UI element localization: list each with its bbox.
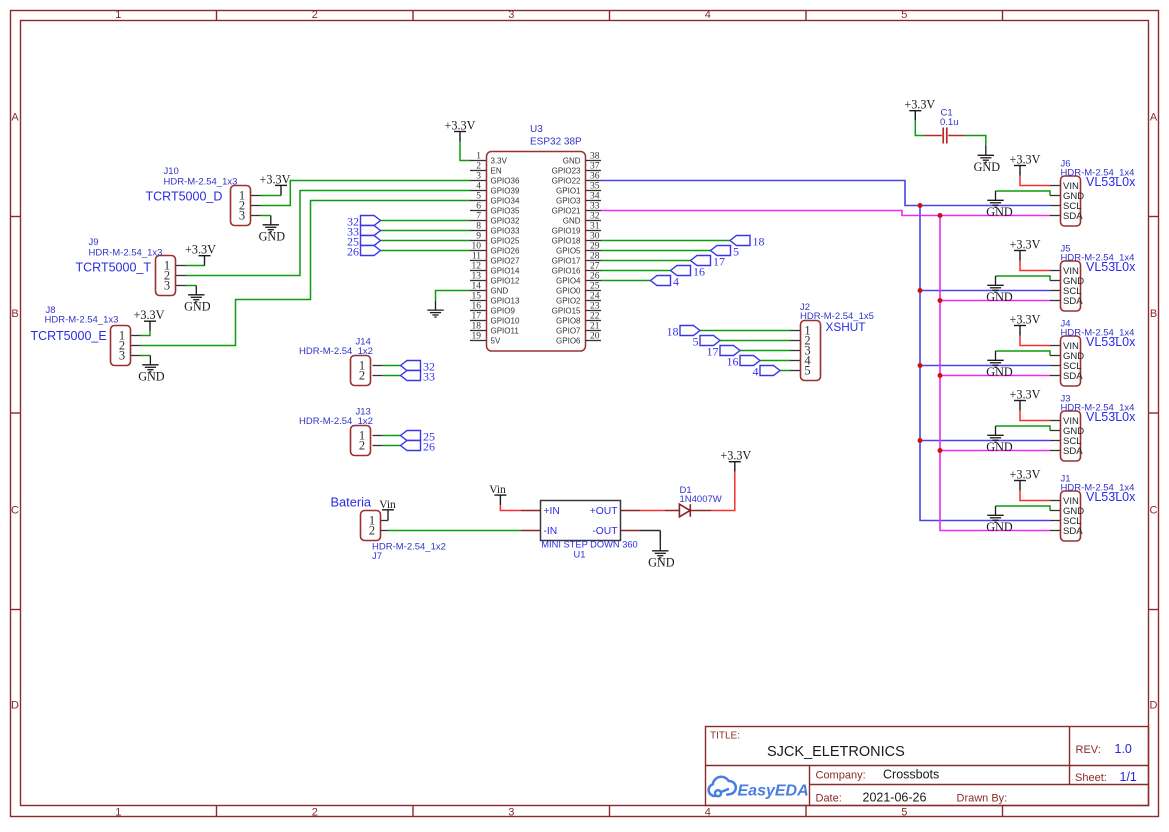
svg-text:16: 16 [727,355,739,369]
svg-text:GPIO17: GPIO17 [552,256,581,265]
svg-text:ESP32 38P: ESP32 38P [530,137,582,148]
svg-text:U3: U3 [530,124,543,135]
svg-text:GPIO12: GPIO12 [491,276,520,285]
svg-text:5: 5 [693,335,699,349]
svg-text:TCRT5000_D: TCRT5000_D [146,190,223,204]
svg-text:GPIO27: GPIO27 [491,256,520,265]
svg-text:3: 3 [508,9,514,21]
svg-text:+3.3V: +3.3V [1010,388,1041,402]
svg-text:7: 7 [476,212,481,222]
svg-text:33: 33 [423,370,435,384]
svg-text:GND: GND [986,290,1013,304]
svg-text:GPIO2: GPIO2 [556,296,581,305]
svg-text:GPIO39: GPIO39 [491,186,520,195]
svg-text:TITLE:: TITLE: [710,731,740,742]
svg-text:15: 15 [472,292,482,302]
svg-text:12: 12 [472,262,482,272]
svg-text:GND: GND [259,229,286,243]
svg-text:22: 22 [590,312,600,322]
svg-text:+3.3V: +3.3V [1010,468,1041,482]
svg-text:18: 18 [667,325,679,339]
svg-text:18: 18 [753,235,765,249]
svg-text:GPIO10: GPIO10 [491,316,520,325]
svg-text:GND: GND [491,286,509,295]
svg-text:3: 3 [164,279,170,293]
svg-text:19: 19 [472,332,482,342]
svg-text:GPIO19: GPIO19 [552,226,581,235]
svg-text:GPIO3: GPIO3 [556,196,581,205]
svg-text:Crossbots: Crossbots [883,768,939,782]
svg-text:GND: GND [184,299,211,313]
svg-text:SDA: SDA [1063,211,1083,222]
svg-text:Drawn By:: Drawn By: [957,793,1008,805]
svg-text:3.3V: 3.3V [491,156,508,165]
svg-text:13: 13 [472,272,482,282]
svg-text:1/1: 1/1 [1120,770,1137,784]
svg-text:37: 37 [590,162,600,172]
svg-text:TCRT5000_E: TCRT5000_E [31,329,107,343]
svg-text:Sheet:: Sheet: [1075,772,1107,784]
svg-text:GPIO36: GPIO36 [491,176,520,185]
svg-text:Bateria: Bateria [331,495,372,510]
svg-text:2: 2 [312,807,318,819]
svg-text:16: 16 [472,302,482,312]
svg-text:14: 14 [472,282,482,292]
svg-text:REV:: REV: [1076,744,1101,756]
svg-text:2: 2 [359,439,365,453]
svg-text:33: 33 [590,202,600,212]
svg-text:EN: EN [491,166,502,175]
svg-text:2: 2 [476,162,481,172]
svg-text:1.0: 1.0 [1115,742,1132,756]
svg-text:16: 16 [693,265,705,279]
svg-text:GPIO13: GPIO13 [491,296,520,305]
svg-text:+3.3V: +3.3V [1010,153,1041,167]
svg-text:30: 30 [590,232,600,242]
svg-text:HDR-M-2.54_1x2: HDR-M-2.54_1x2 [299,416,373,427]
svg-text:GPIO23: GPIO23 [552,166,581,175]
svg-text:38: 38 [590,152,600,162]
svg-text:GPIO16: GPIO16 [552,266,581,275]
svg-text:5: 5 [901,807,907,819]
svg-text:HDR-M-2.54_1x2: HDR-M-2.54_1x2 [299,346,373,357]
svg-text:2021-06-26: 2021-06-26 [863,791,927,805]
svg-text:SDA: SDA [1063,526,1083,537]
svg-text:GPIO32: GPIO32 [491,216,520,225]
svg-text:20: 20 [590,332,600,342]
svg-text:11: 11 [472,252,481,262]
svg-text:HDR-M-2.54_1x3: HDR-M-2.54_1x3 [89,247,163,258]
svg-text:GPIO26: GPIO26 [491,246,520,255]
svg-text:GPIO4: GPIO4 [556,276,581,285]
svg-text:GND: GND [986,520,1013,534]
svg-text:D: D [1150,700,1158,712]
svg-text:GPIO34: GPIO34 [491,196,520,205]
svg-text:26: 26 [347,245,359,259]
svg-text:GND: GND [986,205,1013,219]
svg-text:GPIO7: GPIO7 [556,326,581,335]
svg-text:Date:: Date: [816,793,842,805]
svg-text:HDR-M-2.54_1x3: HDR-M-2.54_1x3 [45,315,119,326]
svg-text:HDR-M-2.54_1x3: HDR-M-2.54_1x3 [164,177,238,188]
svg-text:+OUT: +OUT [590,506,618,517]
svg-text:VL53L0x: VL53L0x [1086,410,1136,424]
svg-text:GPIO8: GPIO8 [556,316,581,325]
svg-text:GPIO11: GPIO11 [491,326,520,335]
svg-text:23: 23 [590,302,600,312]
svg-text:-OUT: -OUT [592,526,618,537]
svg-text:36: 36 [590,172,600,182]
svg-text:3: 3 [119,349,125,363]
svg-text:5: 5 [476,192,481,202]
svg-text:SJCK_ELETRONICS: SJCK_ELETRONICS [767,744,905,760]
svg-text:GND: GND [974,160,1001,174]
svg-text:Vin: Vin [379,499,396,511]
svg-text:A: A [1150,111,1158,123]
svg-text:4: 4 [476,182,481,192]
svg-text:+3.3V: +3.3V [904,98,935,112]
svg-text:0.1u: 0.1u [940,117,959,128]
svg-text:GPIO22: GPIO22 [552,176,581,185]
svg-text:GPIO33: GPIO33 [491,226,520,235]
svg-text:17: 17 [472,312,482,322]
svg-text:21: 21 [590,322,600,332]
svg-text:GPIO35: GPIO35 [491,206,520,215]
svg-text:GPIO15: GPIO15 [552,306,581,315]
svg-text:+3.3V: +3.3V [1010,238,1041,252]
svg-text:MINI STEP DOWN 360: MINI STEP DOWN 360 [541,540,637,550]
svg-text:B: B [1150,308,1157,320]
svg-text:32: 32 [590,212,600,222]
svg-text:J7: J7 [372,551,382,562]
svg-text:GPIO6: GPIO6 [556,336,581,345]
svg-text:6: 6 [476,202,481,212]
svg-text:10: 10 [472,242,482,252]
svg-text:+3.3V: +3.3V [445,119,476,133]
svg-text:GND: GND [986,365,1013,379]
svg-text:C: C [1150,505,1158,517]
svg-text:5: 5 [733,245,739,259]
svg-text:25: 25 [590,282,600,292]
svg-text:SDA: SDA [1063,371,1083,382]
svg-text:27: 27 [590,262,600,272]
svg-text:J10: J10 [164,166,179,177]
svg-text:GND: GND [138,369,165,383]
svg-text:HDR-M-2.54_1x2: HDR-M-2.54_1x2 [372,542,446,553]
svg-text:3: 3 [508,807,514,819]
svg-text:4: 4 [705,9,711,21]
svg-text:GPIO18: GPIO18 [552,236,581,245]
svg-text:1: 1 [476,152,481,162]
svg-text:28: 28 [590,252,600,262]
svg-text:5V: 5V [491,336,501,345]
svg-text:3: 3 [239,209,245,223]
svg-text:GPIO14: GPIO14 [491,266,520,275]
svg-text:VL53L0x: VL53L0x [1086,175,1136,189]
svg-text:XSHUT: XSHUT [826,320,866,334]
svg-text:3: 3 [476,172,481,182]
svg-text:26: 26 [590,272,600,282]
svg-text:35: 35 [590,182,600,192]
svg-text:17: 17 [713,255,725,269]
svg-text:GPIO9: GPIO9 [491,306,516,315]
svg-text:31: 31 [590,222,600,232]
svg-text:1: 1 [115,9,121,21]
svg-text:SDA: SDA [1063,296,1083,307]
svg-text:VL53L0x: VL53L0x [1086,260,1136,274]
svg-text:+3.3V: +3.3V [185,243,216,257]
svg-text:24: 24 [590,292,600,302]
svg-text:GPIO21: GPIO21 [552,206,581,215]
svg-text:+3.3V: +3.3V [260,172,291,186]
svg-text:-IN: -IN [544,526,558,537]
svg-text:C: C [11,505,19,517]
svg-text:TCRT5000_T: TCRT5000_T [76,261,152,275]
svg-text:VL53L0x: VL53L0x [1086,490,1136,504]
svg-text:1: 1 [115,807,121,819]
svg-text:+3.3V: +3.3V [1010,313,1041,327]
svg-text:Company:: Company: [816,770,866,782]
svg-text:9: 9 [476,232,481,242]
svg-text:5: 5 [804,364,810,378]
svg-text:U1: U1 [574,550,586,560]
svg-text:8: 8 [476,222,481,232]
svg-text:GPIO0: GPIO0 [556,286,581,295]
svg-text:GPIO25: GPIO25 [491,236,520,245]
svg-text:GPIO1: GPIO1 [556,186,581,195]
svg-text:1N4007W: 1N4007W [680,494,722,505]
svg-text:+3.3V: +3.3V [134,308,165,322]
svg-text:2: 2 [312,9,318,21]
svg-text:29: 29 [590,242,600,252]
svg-text:4: 4 [753,365,759,379]
svg-text:+3.3V: +3.3V [720,449,751,463]
svg-text:Vin: Vin [489,484,506,496]
svg-text:18: 18 [472,322,482,332]
svg-text:GND: GND [563,216,581,225]
svg-text:17: 17 [707,345,719,359]
svg-text:D: D [11,700,19,712]
svg-text:EasyEDA: EasyEDA [738,783,809,800]
svg-text:34: 34 [590,192,600,202]
svg-text:+IN: +IN [544,506,560,517]
svg-text:GPIO5: GPIO5 [556,246,581,255]
svg-text:SDA: SDA [1063,446,1083,457]
svg-text:GND: GND [986,440,1013,454]
svg-text:2: 2 [359,369,365,383]
svg-text:VL53L0x: VL53L0x [1086,335,1136,349]
svg-text:GND: GND [563,156,581,165]
svg-text:2: 2 [369,524,375,538]
svg-text:B: B [11,308,18,320]
svg-text:4: 4 [673,275,679,289]
svg-text:5: 5 [901,9,907,21]
svg-text:GND: GND [648,555,675,569]
svg-text:26: 26 [423,440,435,454]
svg-text:4: 4 [705,807,711,819]
svg-text:A: A [11,111,19,123]
